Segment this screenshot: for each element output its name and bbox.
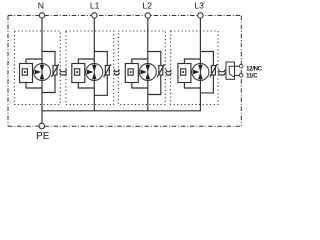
disconnector F2 dot [76,71,78,73]
wire L1 terminal down to spark gap [93,18,95,63]
disconnector F4 box [178,64,191,83]
spark gap U2 left triangle [87,70,93,75]
remote signalling contact S1 box [226,62,235,79]
svg-text:L2: L2 [143,0,153,10]
wire L3 terminal down to spark gap [199,18,201,63]
spark gap U3 circle [139,64,156,81]
spark gap U3 left triangle [141,70,147,75]
wire disconnector to spark gap [85,71,86,73]
spark gap U4 electrode line [199,64,201,81]
wire disconnector to spark gap [33,71,34,73]
enclosure dash-dot boundary [8,16,242,127]
spark gap U1 electrode line [41,64,43,81]
terminal 11/C circle [239,74,243,78]
spark gap U4 left triangle [193,70,199,75]
wire spark gap down to PE bus [93,81,95,111]
spark gap U4 top triangle [198,65,203,72]
varistor RV4 diagonal [210,64,217,77]
wire varistor branch bottom [42,75,55,93]
varistor RV4 body [211,66,215,76]
svg-text:N: N [38,0,44,10]
spark gap U2 circle [86,64,103,81]
disconnector F3 dot [130,71,132,73]
disconnector F3 box [125,64,138,83]
svg-text:11/C: 11/C [246,74,258,80]
wire contact NC to terminal [235,74,240,76]
wire disconnector branch top [26,59,42,64]
spark gap U3 electrode line [147,64,149,81]
wire N terminal down to spark gap [41,18,43,63]
wire spark gap down to PE bus [147,81,149,111]
wire disconnector branch top [78,59,94,64]
wire disconnector branch top [184,59,200,64]
module 2 dotted box [66,31,114,105]
disconnector F2 inner square [75,69,80,75]
varistor RV3 body [159,66,163,76]
wire varistor branch top [94,52,107,66]
wire disconnector branch bottom [26,83,42,89]
disconnector F3 inner square [128,69,133,75]
module 4 dotted box [171,31,218,105]
terminal 12/NC circle [239,64,243,68]
wire disconnector branch top [132,59,148,64]
wire spark gap down to PE bus [199,81,201,111]
wire disconnector to spark gap [138,71,139,73]
varistor RV3 diagonal [157,64,164,77]
svg-text:12/NC: 12/NC [246,67,262,73]
disconnector F4 dot [182,71,184,73]
svg-text:L1: L1 [90,0,100,10]
wire varistor branch bottom [200,75,213,93]
svg-text:L3: L3 [194,0,204,10]
spark gap U3 top triangle [146,65,151,72]
varistor RV1 diagonal [51,64,58,77]
wire disconnector to spark gap [191,71,192,73]
wire disconnector branch bottom [78,83,94,89]
contact S1 common lever [229,66,239,77]
spark gap U1 left triangle [35,70,41,75]
svg-text:PE: PE [36,131,50,140]
varistor RV2 body [105,66,109,76]
spark gap U3 bottom triangle [146,72,151,79]
wire varistor branch bottom [94,75,107,95]
wire disconnector branch bottom [132,83,148,89]
wire varistor branch top [42,52,55,66]
spark gap U2 top triangle [92,65,97,72]
spark gap U1 circle [34,64,51,81]
spark gap U4 bottom triangle [198,72,203,79]
disconnector F1 inner square [22,69,27,75]
terminal L2 circle [145,13,150,18]
plug contact link 1-2 [60,69,67,75]
spark gap U1 top triangle [40,65,45,72]
disconnector F2 box [72,64,85,83]
terminal L1 circle [92,13,97,18]
disconnector F1 dot [24,71,26,73]
disconnector F4 inner square [181,69,186,75]
wire L2 terminal down to spark gap [147,18,149,63]
PE bus wire [42,110,201,112]
wire spark gap down to PE terminal [41,81,43,124]
plug contact link 2-3 [115,69,120,75]
terminal N circle [39,13,44,18]
spark gap U2 electrode line [93,64,95,81]
module 1 dotted box [14,31,60,105]
spark gap U4 circle [192,64,209,81]
spark gap U1 bottom triangle [40,72,45,79]
module 3 dotted box [118,31,165,105]
disconnector F1 box [20,64,33,83]
varistor RV1 body [53,66,57,76]
wire disconnector branch bottom [184,83,200,89]
terminal PE circle [39,123,45,129]
plug contact link 3-4 [166,69,171,75]
terminal L3 circle [198,13,203,18]
plug contact link 4-signal [219,69,225,75]
wire varistor branch top [148,52,161,66]
wire varistor branch top [200,52,213,66]
spark gap U2 bottom triangle [92,72,97,79]
varistor RV2 diagonal [104,64,111,77]
wire varistor branch bottom [148,75,161,95]
